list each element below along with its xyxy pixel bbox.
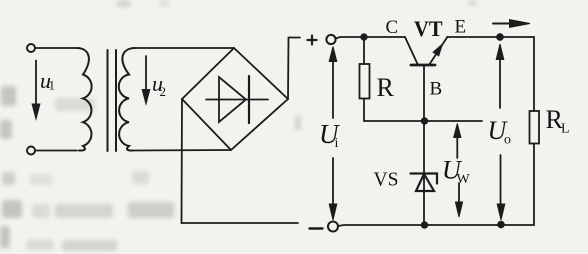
bridge rectifier diamond bbox=[182, 48, 288, 150]
terminal: primary top bbox=[27, 44, 35, 52]
arrow u2 bbox=[145, 56, 147, 91]
node output bottom bbox=[497, 221, 504, 228]
wire primary bottom bbox=[35, 150, 77, 152]
svg-text:E: E bbox=[455, 17, 467, 38]
resistor RL bbox=[530, 111, 540, 144]
node base junction bbox=[421, 118, 428, 125]
svg-text:i: i bbox=[335, 136, 339, 151]
winding W2 secondary bbox=[119, 48, 135, 151]
terminal: - input bbox=[328, 222, 338, 232]
svg-text:1: 1 bbox=[49, 78, 56, 93]
wire bottom rail bbox=[338, 225, 534, 226]
node R top bbox=[361, 34, 368, 41]
bridge diode axis line bbox=[206, 99, 268, 101]
wire right edge bottom bbox=[533, 144, 535, 226]
wire primary top bbox=[35, 47, 77, 49]
node output top bbox=[496, 33, 503, 40]
wire bridge plus output bbox=[288, 38, 300, 100]
svg-text:L: L bbox=[561, 122, 570, 137]
bridge diode cathode bar bbox=[248, 76, 250, 123]
arrow Ui up bbox=[332, 52, 334, 118]
resistor R bbox=[363, 37, 365, 64]
svg-text:2: 2 bbox=[160, 84, 167, 99]
wire secondary bottom to bridge bbox=[134, 149, 231, 152]
svg-text:B: B bbox=[430, 79, 443, 100]
wire right edge top bbox=[533, 37, 535, 111]
svg-text:W: W bbox=[457, 172, 471, 187]
transformer core bbox=[107, 50, 109, 151]
winding W1 primary bbox=[77, 48, 92, 151]
arrow Uw down bbox=[458, 183, 460, 204]
terminal: primary bottom bbox=[27, 147, 35, 155]
svg-text:VT: VT bbox=[414, 16, 443, 41]
wire base rail bbox=[364, 120, 482, 122]
zener VS cathode bar bbox=[411, 174, 438, 184]
label + bbox=[308, 36, 317, 45]
node zener bottom bbox=[421, 222, 428, 229]
terminal: + input bbox=[326, 35, 335, 44]
wire top rail left bbox=[336, 37, 405, 39]
arrow u1 bbox=[35, 61, 37, 107]
wire secondary top to bridge bbox=[134, 47, 234, 49]
transistor VT collector bbox=[405, 37, 418, 65]
svg-text:C: C bbox=[386, 17, 399, 38]
bridge diode triangle bbox=[219, 77, 246, 122]
arrow Uo down bbox=[500, 155, 502, 206]
svg-text:o: o bbox=[504, 133, 511, 148]
label minus bbox=[310, 227, 323, 229]
arrow output current bbox=[493, 23, 512, 25]
arrow Ui down bbox=[332, 158, 334, 206]
transistor VT base bar bbox=[411, 64, 435, 67]
svg-text:VS: VS bbox=[374, 170, 399, 191]
transistor VT emitter bbox=[429, 38, 447, 66]
arrow Uo up bbox=[499, 50, 501, 108]
transistor VT base wire bbox=[423, 66, 425, 121]
zener VS triangle bbox=[416, 174, 434, 191]
zener VS wire bbox=[423, 121, 425, 225]
arrow Uw up bbox=[456, 127, 458, 158]
transistor VT emitter arrowhead bbox=[433, 44, 442, 56]
wire top rail right bbox=[447, 36, 534, 38]
svg-text:R: R bbox=[377, 73, 395, 102]
wire bridge minus output bbox=[182, 99, 299, 223]
